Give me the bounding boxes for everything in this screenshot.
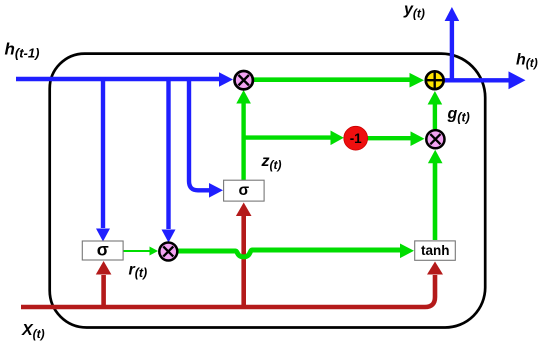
- svg-text:h(t-1): h(t-1): [5, 40, 40, 61]
- op box tanh: [415, 241, 456, 260]
- arrowhead blue into mult r2: [162, 230, 176, 243]
- arrowhead green into add: [410, 73, 425, 88]
- wire blue drop to sigma r: [101, 77, 105, 228]
- wire X(t) red bus horizontal with elbow up to tanh: [21, 275, 435, 307]
- svg-text:y(t): y(t): [403, 1, 425, 21]
- arrowhead blue into sigma r: [96, 229, 110, 242]
- op box sigma r: [82, 240, 123, 261]
- arrowhead blue h(t): [509, 71, 526, 89]
- wire h(t-1) blue horizontal: [16, 77, 219, 81]
- wire y(t) blue output vertical: [450, 21, 454, 82]
- op box sigma z: [224, 180, 265, 201]
- arrowhead red into tanh: [427, 262, 443, 275]
- svg-text:z(t): z(t): [261, 153, 282, 172]
- arrowhead green into add from below: [428, 91, 443, 105]
- node -1 (negate): [344, 126, 368, 150]
- arrowhead green into mult r from below: [236, 90, 251, 104]
- wire green mult g up to add: [433, 105, 437, 130]
- svg-text:r(t): r(t): [129, 262, 148, 281]
- node mult g: [426, 130, 444, 148]
- arrowhead green into mult g from below: [428, 150, 443, 164]
- wire blue drop and elbow to sigma z: [189, 77, 210, 190]
- node mult r (element-wise multiply, top): [235, 71, 253, 89]
- wire green z vertical from sigma z up to mult r: [241, 103, 245, 181]
- svg-text:σ: σ: [97, 240, 109, 260]
- wire green sigma r to mult r2 (thin): [123, 250, 150, 252]
- svg-text:-1: -1: [350, 131, 362, 146]
- arrowhead blue y(t): [445, 7, 460, 21]
- wire green mult r2 to tanh with hop over red: [177, 250, 400, 257]
- arrowhead red into sigma z: [236, 203, 252, 217]
- wire red branch to sigma r: [101, 275, 106, 309]
- svg-text:X(t): X(t): [21, 322, 45, 341]
- svg-text:tanh: tanh: [421, 243, 450, 258]
- arrowhead green into mult r2: [150, 247, 159, 256]
- node add (plus, output): [426, 71, 444, 89]
- svg-text:g(t): g(t): [447, 106, 470, 125]
- wire red branch to sigma z: [241, 216, 246, 309]
- wire blue drop to mult r2: [166, 77, 170, 229]
- arrowhead red into sigma r: [96, 261, 112, 275]
- svg-text:h(t): h(t): [516, 52, 538, 70]
- arrowhead green into mult g: [411, 131, 425, 146]
- wire green mult r to add: [253, 77, 410, 82]
- wire green tanh up to mult g: [433, 163, 438, 240]
- arrowhead green into -1: [331, 131, 344, 146]
- arrowhead green into tanh: [400, 244, 414, 259]
- svg-text:σ: σ: [238, 182, 249, 199]
- node mult r2 (reset gate multiply): [159, 243, 177, 261]
- wire green -1 to mult g: [368, 136, 411, 140]
- cell boundary rounded rect: [50, 54, 486, 328]
- wire h(t) blue output horizontal: [444, 78, 509, 82]
- arrowhead blue into mult r: [219, 72, 233, 87]
- arrowhead blue into sigma z: [209, 183, 223, 198]
- wire green branch z to -1: [244, 135, 331, 139]
